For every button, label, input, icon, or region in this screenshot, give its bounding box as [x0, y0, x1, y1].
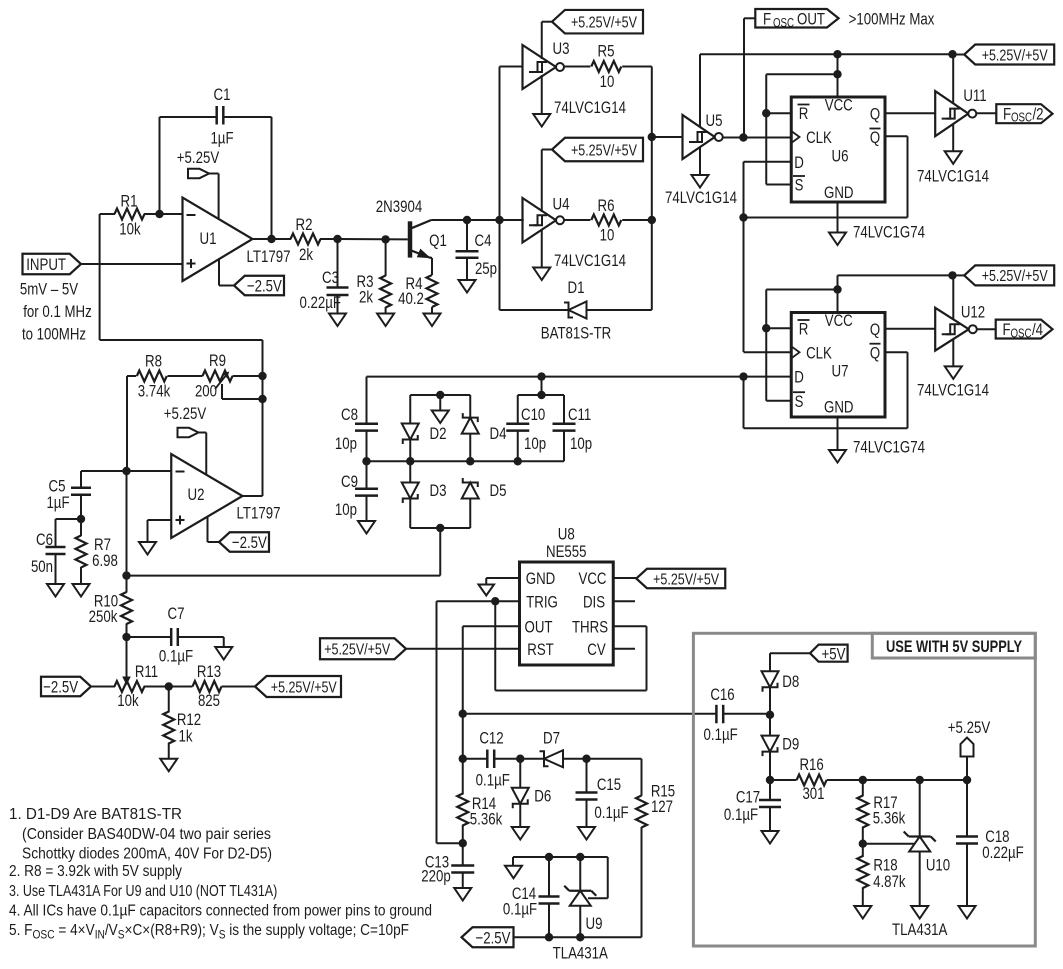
node bridge bottom center [436, 524, 444, 532]
diode D3 [409, 461, 411, 482]
node U5 input on rail [648, 133, 656, 141]
wire U2 output [243, 495, 263, 497]
shunt reference U10 TLA431A [919, 780, 921, 837]
resistor R18 [862, 844, 864, 857]
power tag +5.25V/+5V right top [964, 45, 1054, 65]
svg-text:74LVC1G14: 74LVC1G14 [665, 188, 737, 207]
svg-text:127: 127 [651, 797, 673, 816]
stub CV [613, 648, 635, 650]
svg-text:74LVC1G74: 74LVC1G74 [853, 223, 925, 242]
svg-text:OSC: OSC [1011, 111, 1032, 125]
svg-text:is the supply voltage; C=10pF: is the supply voltage; C=10pF [226, 922, 410, 939]
capacitor C10 [517, 395, 519, 424]
svg-text:2k: 2k [359, 288, 373, 307]
power tag +5V [810, 645, 848, 662]
svg-text:D4: D4 [490, 424, 507, 443]
stub DIS [613, 600, 635, 602]
capacitor C14 [548, 857, 550, 897]
capacitor C15 [586, 759, 588, 792]
svg-text:OSC: OSC [773, 16, 794, 30]
svg-text:TLA431A: TLA431A [892, 920, 948, 939]
ground below U6 [837, 202, 839, 233]
svg-text:250k: 250k [89, 607, 118, 626]
ground below R18 [854, 906, 871, 919]
capacitor C5 [81, 470, 127, 472]
svg-text:USE WITH 5V SUPPLY: USE WITH 5V SUPPLY [886, 638, 1022, 656]
resistor R10 [121, 592, 132, 624]
svg-text:S: S [219, 927, 226, 941]
svg-text:C1: C1 [214, 85, 231, 104]
capacitor C16 [715, 705, 718, 724]
node U10 top [916, 776, 924, 784]
resistor R12 [168, 687, 170, 713]
resistor R17 [862, 780, 864, 796]
svg-text:CLK: CLK [806, 343, 832, 362]
svg-text:1µF: 1µF [210, 129, 233, 148]
capacitor C6 [56, 518, 82, 520]
ground below C13 [454, 888, 471, 901]
ground at U2 + input [148, 519, 172, 521]
svg-text:−2.5V: −2.5V [247, 277, 283, 296]
schmitt inverter U3 [523, 45, 557, 89]
wire D net to U7 [367, 376, 792, 378]
ground below U10 [911, 906, 928, 919]
svg-text:VCC: VCC [825, 96, 853, 115]
wire VCC U6 [837, 54, 839, 97]
svg-text:+5.25V: +5.25V [164, 404, 207, 423]
ground at bridge top [439, 395, 441, 411]
svg-text:F: F [1002, 320, 1010, 339]
wire U5 supply [699, 54, 701, 127]
diode D6 [519, 759, 521, 787]
svg-text:2N3904: 2N3904 [376, 197, 422, 216]
node R17 top [859, 776, 867, 784]
ground below C15 [578, 827, 595, 840]
node Q1 base / R3 [381, 235, 389, 243]
svg-text:R9: R9 [209, 351, 226, 370]
svg-text:+5.25V/+5V: +5.25V/+5V [571, 142, 637, 159]
svg-text:5. F: 5. F [9, 922, 33, 939]
svg-text:74LVC1G74: 74LVC1G74 [853, 438, 925, 457]
svg-text:/4: /4 [1032, 320, 1043, 339]
svg-text:−2.5V: −2.5V [43, 678, 79, 697]
svg-text:Q: Q [870, 105, 880, 124]
resistor R1 [100, 213, 115, 215]
capacitor C1 [159, 117, 161, 214]
wire R2 to Q1 base [338, 238, 408, 240]
svg-text:1. D1-D9 Are BAT81S-TR: 1. D1-D9 Are BAT81S-TR [9, 806, 182, 823]
svg-text:+5.25V/+5V: +5.25V/+5V [982, 268, 1048, 285]
svg-text:R16: R16 [799, 755, 823, 774]
node C5/C6/R7 [77, 515, 85, 523]
svg-text:200: 200 [195, 382, 217, 401]
wire U7 CLK from U6 Qbar [744, 351, 792, 353]
svg-text:825: 825 [198, 691, 220, 710]
node OUT / C12 row [459, 755, 467, 763]
svg-text:74LVC1G14: 74LVC1G14 [554, 251, 626, 270]
svg-text:VCC: VCC [825, 311, 853, 330]
capacitor C17 [769, 780, 771, 800]
diode D7 [544, 750, 563, 767]
svg-text:U5: U5 [706, 111, 723, 130]
capacitor C18 [966, 780, 968, 836]
node bridge top center [436, 391, 444, 399]
svg-text:10: 10 [600, 72, 615, 91]
svg-text:+5.25V/+5V: +5.25V/+5V [271, 679, 337, 696]
wire C10/C11 top rail [518, 394, 564, 396]
wire bridge bottom rail [410, 527, 470, 529]
power tag +5.25V/+5V for U3 [552, 10, 643, 34]
node C18 top [963, 776, 971, 784]
svg-text:R: R [799, 320, 809, 339]
wire TRIG-THRS loop [494, 601, 496, 690]
svg-text:R1: R1 [121, 192, 138, 211]
svg-text:/V: /V [105, 922, 118, 939]
resistor R15 [636, 796, 647, 828]
svg-text:3.74k: 3.74k [138, 382, 171, 401]
svg-text:50n: 50n [31, 557, 53, 576]
diode D1 [569, 302, 587, 319]
node R2 / C3 [333, 235, 341, 243]
capacitor C13 [462, 843, 464, 865]
node U5 output / FOSC OUT [739, 133, 747, 141]
svg-text:10k: 10k [117, 691, 139, 710]
svg-text:/2: /2 [1032, 105, 1043, 124]
svg-text:0.1µF: 0.1µF [476, 771, 510, 790]
wire VCC U7 [837, 275, 839, 312]
node collector rail to U3 [495, 216, 503, 224]
svg-text:F: F [763, 10, 771, 29]
capacitor C11 [563, 395, 565, 424]
capacitor C4 [466, 220, 468, 251]
svg-text:+5.25V/+5V: +5.25V/+5V [324, 642, 390, 659]
svg-text:×C×(R8+R9); V: ×C×(R8+R9); V [125, 922, 219, 939]
capacitor C9 [366, 461, 368, 489]
diode D4 [469, 395, 471, 418]
svg-text:LT1797: LT1797 [237, 504, 281, 523]
svg-text:D1: D1 [568, 278, 585, 297]
svg-text:1µF: 1µF [46, 493, 69, 512]
node U9 top [576, 853, 584, 861]
svg-text:D2: D2 [430, 424, 447, 443]
svg-text:+5.25V/+5V: +5.25V/+5V [571, 14, 637, 31]
svg-text:GND: GND [824, 398, 854, 417]
svg-text:D9: D9 [782, 734, 799, 753]
svg-text:0.22µF: 0.22µF [300, 293, 342, 312]
svg-text:for 0.1 MHz: for 0.1 MHz [23, 302, 92, 321]
wire +5.25V row in box [863, 779, 967, 781]
node R17/R18/ref [859, 840, 867, 848]
svg-text:D8: D8 [782, 672, 799, 691]
svg-text:C9: C9 [341, 472, 358, 491]
power tag -2.5V for U2 [207, 517, 209, 543]
svg-text:C10: C10 [521, 405, 545, 424]
svg-text:U6: U6 [832, 147, 849, 166]
ground below D6 [512, 827, 529, 840]
svg-text:C6: C6 [36, 530, 53, 549]
power tag -2.5V for U1 [218, 259, 220, 285]
svg-text:C15: C15 [597, 775, 621, 794]
svg-text:D3: D3 [430, 481, 447, 500]
svg-text:D: D [794, 368, 804, 387]
wire U12 supply [952, 275, 954, 319]
svg-text:10p: 10p [570, 434, 592, 453]
wire U2 input vertical [126, 471, 128, 593]
svg-text:C12: C12 [479, 729, 503, 748]
resistor R8 [127, 375, 136, 377]
svg-text:74LVC1G14: 74LVC1G14 [554, 98, 626, 117]
svg-text:4.87k: 4.87k [873, 872, 906, 891]
ground below U4 [541, 229, 543, 268]
wire rail up to U3 input [499, 67, 501, 221]
ground rail for C14/U9 [513, 856, 608, 858]
svg-text:(Consider BAS40DW-04 two pair: (Consider BAS40DW-04 two pair series [22, 826, 271, 843]
svg-text:R2: R2 [296, 215, 313, 234]
ground below U12 [952, 339, 954, 366]
node C8/C9 mid rail [362, 457, 370, 465]
svg-text:6.98: 6.98 [92, 551, 118, 570]
svg-text:D: D [794, 153, 804, 172]
svg-text:S: S [795, 176, 804, 195]
node R9 right rail [258, 372, 266, 380]
ground below R7 [73, 584, 90, 597]
node D net drop [537, 372, 545, 380]
ground below C3 [337, 295, 339, 314]
svg-text:LT1797: LT1797 [247, 247, 291, 266]
svg-text:D7: D7 [543, 729, 560, 748]
wire bridge to U2 input line [439, 528, 441, 576]
svg-text:Schottky diodes 200mA, 40V For: Schottky diodes 200mA, 40V For D2-D5) [22, 845, 272, 862]
svg-text:D6: D6 [534, 787, 551, 806]
output tag FOSC/4 [977, 328, 996, 330]
svg-text:R5: R5 [598, 42, 615, 61]
svg-text:U11: U11 [963, 86, 986, 105]
wire to R15 [587, 758, 642, 760]
wire U7 Q to U12 [885, 328, 935, 330]
node R14/C13/TRIG [459, 839, 467, 847]
svg-text:TRIG: TRIG [526, 592, 558, 611]
resistor R2 [291, 234, 321, 245]
svg-text:Q1: Q1 [429, 231, 447, 250]
svg-text:74LVC1G14: 74LVC1G14 [917, 166, 989, 185]
svg-text:4. All ICs have 0.1µF capacito: 4. All ICs have 0.1µF capacitors connect… [9, 902, 432, 919]
node C10 mid rail [514, 457, 522, 465]
svg-text:GND: GND [526, 569, 556, 588]
svg-text:2. R8 = 3.92k with 5V supply: 2. R8 = 3.92k with 5V supply [9, 863, 182, 880]
node U9 anode [576, 933, 584, 941]
ground below C9 [366, 496, 368, 521]
transistor Q1 2N3904 [408, 221, 413, 257]
svg-text:U9: U9 [586, 914, 603, 933]
svg-text:+5.25V/+5V: +5.25V/+5V [982, 47, 1048, 64]
svg-text:+5.25V: +5.25V [177, 148, 220, 167]
node R6 right [648, 216, 656, 224]
wire OUT net [463, 625, 520, 627]
capacitor C8 [366, 377, 368, 424]
trimpot R9 wiper arrow [215, 374, 228, 390]
resistor R4 [427, 275, 438, 307]
wire bridge mid rail [367, 460, 565, 462]
diode D9 [769, 715, 771, 736]
svg-text:3. Use TLA431A For U9 and U10: 3. Use TLA431A For U9 and U10 (NOT TL431… [9, 883, 277, 900]
power rail +5.25V/+5V for U7 [838, 274, 953, 276]
svg-text:0.1µF: 0.1µF [503, 900, 537, 919]
svg-text:0.1µF: 0.1µF [594, 803, 628, 822]
svg-text:2k: 2k [299, 245, 313, 264]
svg-text:R11: R11 [135, 662, 158, 681]
svg-text:220p: 220p [421, 867, 451, 886]
svg-text:U10: U10 [926, 856, 950, 875]
wire -2.5V row [514, 936, 642, 938]
capacitor C12 [463, 758, 488, 760]
svg-text:OUT: OUT [797, 10, 825, 29]
node U7 VCC branch [833, 285, 841, 293]
ground below U11 [952, 124, 954, 151]
svg-text:NE555: NE555 [546, 542, 587, 561]
svg-text:DIS: DIS [583, 592, 605, 611]
resistor R11 trimpot [91, 686, 115, 688]
wire feedback from U2 output [99, 214, 101, 340]
svg-text:R13: R13 [197, 662, 221, 681]
svg-text:U4: U4 [553, 195, 570, 214]
wire U6 D / Qbar feedback [744, 161, 792, 163]
svg-text:BAT81S-TR: BAT81S-TR [541, 324, 612, 343]
wire to D7 [520, 758, 544, 760]
svg-text:INPUT: INPUT [26, 255, 66, 274]
svg-text:D5: D5 [490, 481, 507, 500]
svg-text:C17: C17 [736, 787, 760, 806]
capacitor C7 [127, 636, 172, 638]
node D7/C15 [582, 755, 590, 763]
svg-text:Q: Q [870, 320, 880, 339]
wire input to U1 + input [81, 263, 183, 265]
diode D8 [762, 671, 779, 687]
svg-text:>100MHz Max: >100MHz Max [849, 10, 935, 29]
ground below C18 [959, 906, 976, 919]
svg-text:5.36k: 5.36k [470, 810, 503, 829]
resistor R3 [385, 239, 387, 276]
svg-text:0.1µF: 0.1µF [159, 647, 193, 666]
wire U5 output to U6 CLK [723, 137, 792, 139]
svg-text:5.36k: 5.36k [873, 809, 906, 828]
svg-text:10p: 10p [335, 500, 357, 519]
ground below C17 [762, 831, 779, 844]
node U2 input line / R10 [122, 571, 130, 579]
svg-text:VCC: VCC [579, 569, 607, 588]
node C14 top [545, 853, 553, 861]
svg-text:C4: C4 [475, 231, 492, 250]
svg-text:5mV – 5V: 5mV – 5V [20, 280, 79, 299]
ground right of C7 [223, 637, 225, 647]
timer U8 NE555 [520, 562, 614, 665]
wire U6 R/S tie to VCC [766, 73, 837, 75]
svg-text:RST: RST [527, 640, 554, 659]
svg-text:+5.25V/+5V: +5.25V/+5V [653, 571, 719, 588]
svg-text:0.1µF: 0.1µF [704, 725, 738, 744]
resistor R5 [564, 66, 590, 68]
wire R8 left down to U2 input [126, 376, 128, 471]
svg-text:−2.5V: −2.5V [232, 533, 268, 552]
shunt reference U9 TLA431A [579, 857, 581, 891]
input tag INPUT [23, 254, 82, 275]
svg-text:U2: U2 [188, 485, 205, 504]
diode D5 [462, 483, 479, 499]
wire R5/R6 right rail [651, 67, 653, 311]
svg-text:S: S [795, 392, 804, 411]
svg-text:10: 10 [600, 226, 615, 245]
node C12/D6 [516, 755, 524, 763]
svg-text:= 4×V: = 4×V [55, 922, 95, 939]
node R10/C7 [122, 633, 130, 641]
svg-text:TLA431A: TLA431A [553, 944, 609, 963]
svg-text:CV: CV [587, 640, 606, 659]
wire OUT to C16 [463, 713, 717, 715]
flip-flop U7 74LVC1G74 [791, 313, 885, 418]
svg-text:U1: U1 [200, 229, 217, 248]
svg-text:GND: GND [824, 183, 854, 202]
power tag +5.25V/+5V for U4 [552, 138, 643, 162]
op-amp U1 [183, 198, 253, 282]
node TRIG [491, 597, 499, 605]
svg-text:THRS: THRS [572, 617, 608, 636]
svg-text:OSC: OSC [1010, 326, 1031, 340]
svg-text:0.22µF: 0.22µF [982, 843, 1024, 862]
svg-text:C11: C11 [568, 405, 591, 424]
inverter U11 [935, 91, 968, 136]
resistor R16 [770, 779, 797, 781]
svg-text:F: F [1003, 105, 1011, 124]
ground below C4 [466, 258, 468, 280]
svg-text:U3: U3 [553, 39, 570, 58]
node U2 inverting input [122, 467, 130, 475]
svg-text:+5V: +5V [822, 644, 847, 663]
wire U9 ref loop [607, 857, 609, 898]
wire U5 input [652, 136, 683, 138]
svg-text:40.2: 40.2 [398, 289, 424, 308]
wire U7 R/S tie to VCC [766, 289, 837, 291]
wire bridge top rail [410, 394, 470, 396]
ground below U7 [837, 417, 839, 450]
svg-text:C3: C3 [322, 268, 339, 287]
wire Q1 collector rail [431, 219, 523, 221]
power tag +5.25V/+5V at R13 [255, 676, 341, 697]
ground below R3 [377, 314, 394, 327]
resistor R7 [80, 519, 82, 536]
power tag -2.5V at R11 [41, 677, 91, 697]
svg-text:74LVC1G14: 74LVC1G14 [917, 381, 989, 400]
power tag -2.5V bottom [462, 927, 514, 947]
wire U2 - input [127, 470, 172, 472]
diode D2 [402, 424, 419, 440]
power tag +5.25V/+5V right mid [964, 265, 1054, 285]
ground below U5 [699, 147, 701, 175]
wire U10 ref [863, 843, 915, 845]
node D2/D3 [406, 457, 414, 465]
svg-text:25p: 25p [475, 259, 497, 278]
ground at NE555 GND [486, 577, 519, 579]
svg-text:U8: U8 [558, 525, 575, 544]
node C16/D8/D9 [766, 711, 774, 719]
node D net / Qbar feedback U7 [739, 372, 747, 380]
svg-text:OUT: OUT [525, 617, 553, 636]
node C4 [463, 216, 471, 224]
svg-text:10p: 10p [524, 434, 546, 453]
tag FOSC OUT [744, 17, 755, 19]
svg-text:IN: IN [95, 927, 105, 941]
svg-text:S: S [118, 927, 125, 941]
svg-text:C7: C7 [168, 604, 185, 623]
diode D1 loop [499, 220, 501, 310]
